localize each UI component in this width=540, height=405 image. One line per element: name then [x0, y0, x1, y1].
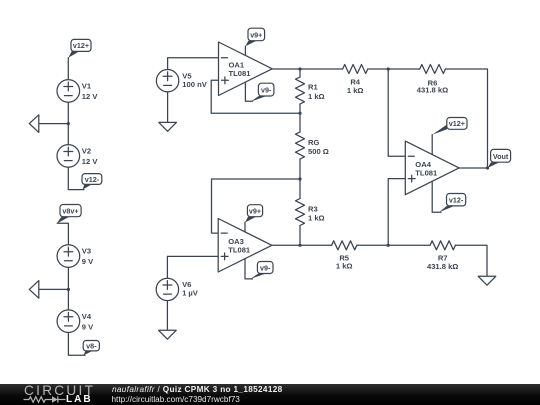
voltage source V6 — [156, 278, 178, 300]
wire V5 to OA1 inverting input — [168, 58, 219, 70]
svg-text:Vout: Vout — [493, 152, 509, 161]
op-amp OA1 — [219, 42, 273, 96]
op-amp OA3 — [218, 219, 272, 273]
flag v12- — [82, 174, 102, 190]
svg-text:TL081: TL081 — [415, 168, 438, 177]
footer bar — [0, 384, 540, 405]
svg-text:TL081: TL081 — [229, 69, 252, 78]
ground (left, 12V rail) — [29, 115, 68, 133]
node 9V mid junction — [67, 288, 70, 291]
svg-text:9 V: 9 V — [82, 257, 94, 266]
node Vout junction — [486, 166, 489, 169]
footer url line — [112, 395, 240, 404]
wire node A to OA4 inverting input — [388, 69, 405, 156]
resistor R1 — [296, 69, 305, 113]
svg-text:1 kΩ: 1 kΩ — [308, 214, 325, 223]
voltage source V4 — [57, 310, 80, 333]
OA3 power pin bottom to v9- flag — [245, 259, 253, 279]
OA3 power pin top — [244, 222, 246, 232]
flag v9- (OA1) — [251, 83, 274, 102]
svg-text:9 V: 9 V — [82, 322, 94, 331]
svg-text:R7: R7 — [438, 253, 448, 262]
wire V4 to v8- flag — [68, 333, 85, 356]
svg-text:v9+: v9+ — [250, 30, 262, 39]
svg-text:1 kΩ: 1 kΩ — [347, 86, 364, 95]
flag Vout — [488, 149, 511, 168]
CircuitLab logo LAB — [66, 394, 93, 405]
wire v12+ to V1 — [67, 58, 69, 80]
node R1 bottom junction — [298, 112, 301, 115]
resistor R3 — [296, 179, 305, 245]
wire V5 to ground — [167, 92, 169, 123]
resistor R7 — [430, 241, 455, 250]
CircuitLab logo wordmark — [24, 383, 95, 398]
svg-text:v9+: v9+ — [249, 207, 261, 216]
ground (left, 9V rail) — [29, 281, 68, 299]
svg-text:TL081: TL081 — [228, 246, 251, 255]
node R3 bottom junction — [298, 244, 301, 247]
voltage source V2 — [57, 145, 80, 168]
svg-text:12 V: 12 V — [82, 157, 99, 166]
flag v9+ (OA3) — [245, 205, 263, 223]
wire OA3 output to R5 — [272, 244, 332, 246]
svg-text:R3: R3 — [308, 204, 318, 213]
svg-text:431.8 kΩ: 431.8 kΩ — [427, 262, 458, 271]
svg-text:431.8 kΩ: 431.8 kΩ — [417, 85, 448, 94]
voltage source V1 — [57, 80, 80, 103]
wire V6 to OA3 non-inverting input — [167, 256, 218, 278]
ground (below R7) — [478, 276, 496, 285]
wire RG node to OA3 inverting input — [212, 179, 301, 233]
voltage source V3 — [57, 245, 80, 268]
wire R4 to node A — [368, 68, 420, 70]
wire node B to OA4 non-inverting input — [388, 179, 405, 246]
svg-text:100 nV: 100 nV — [182, 80, 207, 89]
resistor R6 — [420, 65, 446, 74]
svg-text:V4: V4 — [82, 312, 92, 321]
wire R6 to Vout node — [445, 69, 487, 168]
wire R5 to node B — [357, 244, 430, 246]
wire V2 to v12- flag — [68, 167, 84, 189]
resistor R5 — [332, 241, 357, 250]
svg-text:v12+: v12+ — [73, 41, 89, 50]
node RG bottom junction — [298, 177, 301, 180]
svg-text:v9-: v9- — [261, 86, 272, 95]
wire node to V2 — [67, 124, 69, 145]
ground (below V6) — [159, 330, 177, 339]
svg-text:1 kΩ: 1 kΩ — [308, 92, 325, 101]
flag v9+ (OA1) — [245, 28, 264, 46]
wire OA1 + input feedback — [211, 80, 300, 113]
svg-text:1 µV: 1 µV — [182, 289, 199, 298]
svg-text:500 Ω: 500 Ω — [308, 147, 329, 156]
svg-text:V1: V1 — [82, 82, 92, 91]
op-amp OA4 — [405, 141, 459, 195]
svg-text:RG: RG — [308, 138, 319, 147]
flag v9- (OA3) — [251, 262, 274, 279]
wire OA1 output to R4 — [272, 68, 342, 70]
flag v8- — [83, 341, 99, 356]
CircuitLab logo circuit symbol — [22, 395, 68, 405]
ground (below V5) — [159, 122, 177, 131]
wire v8v+ flag to V3 — [57, 223, 68, 245]
svg-text:v12-: v12- — [449, 196, 464, 205]
node A junction — [387, 67, 390, 70]
flag v8v+ — [57, 205, 81, 224]
OA4 power pin bottom to v12- flag — [432, 181, 441, 212]
svg-text:v9-: v9- — [260, 263, 271, 272]
wire V1 to node — [67, 102, 69, 123]
OA1 power pin bottom to v9- flag — [245, 82, 252, 101]
svg-text:R1: R1 — [308, 83, 318, 92]
voltage source V5 — [156, 70, 178, 92]
svg-text:v8-: v8- — [86, 342, 97, 351]
footer title line — [112, 385, 283, 394]
resistor RG — [296, 113, 305, 179]
wire OA4 output to Vout node — [459, 167, 488, 169]
wire V3 to node — [67, 267, 69, 289]
node R1 top junction — [298, 67, 301, 70]
svg-text:v8v+: v8v+ — [62, 206, 78, 215]
OA4 power pin top — [431, 135, 433, 155]
flag v12+ — [68, 39, 91, 57]
flag v12- (OA4) — [439, 194, 466, 213]
svg-text:V2: V2 — [82, 147, 91, 156]
wire V6 to ground — [166, 301, 168, 331]
svg-text:12 V: 12 V — [82, 92, 99, 101]
node 12V mid junction — [67, 122, 70, 125]
svg-text:1 kΩ: 1 kΩ — [336, 261, 353, 270]
flag v12+ (OA4) — [432, 118, 467, 135]
resistor R4 — [343, 65, 368, 74]
wire R7 to ground — [455, 245, 487, 276]
svg-text:V3: V3 — [82, 247, 91, 256]
OA1 power pin top — [244, 46, 246, 55]
svg-text:v12+: v12+ — [449, 119, 465, 128]
node B junction — [387, 244, 390, 247]
svg-text:v12-: v12- — [85, 175, 100, 184]
wire node to V4 — [67, 289, 69, 310]
